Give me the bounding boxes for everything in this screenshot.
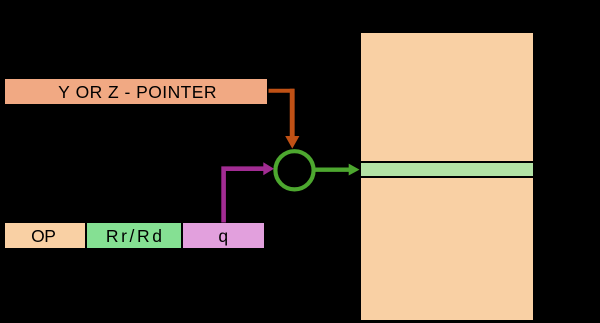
RAM / data space block: [361, 33, 533, 320]
wire: purple q path: [224, 169, 264, 223]
instruction word: q displacement field: [183, 223, 264, 248]
register Y/Z pointer box: [5, 79, 267, 104]
selected data-space row (green fill): [361, 163, 533, 175]
arrowhead: purple into adder: [263, 162, 274, 175]
arrowhead: green into RAM row: [349, 164, 360, 176]
instruction word: Rr/Rd field: [87, 223, 181, 248]
selected data-space row (black separators): [361, 161, 533, 178]
instruction word: OP field: [5, 223, 86, 248]
adder circle: [275, 151, 313, 189]
wire: orange pointer path: [269, 89, 295, 93]
wire: green result path: [315, 167, 350, 171]
arrowhead: orange into adder: [285, 136, 299, 149]
